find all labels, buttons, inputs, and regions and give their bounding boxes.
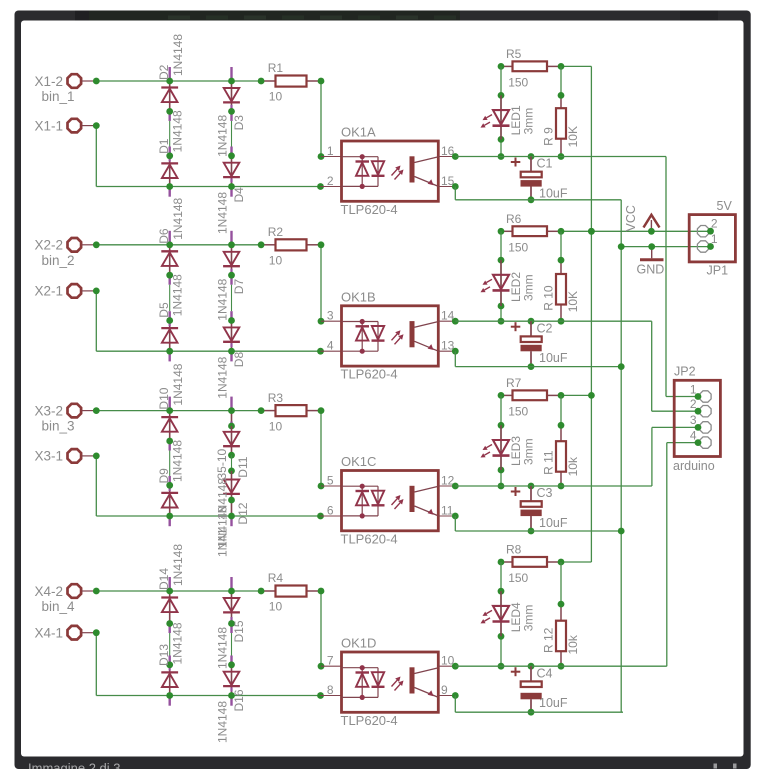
- svg-text:R8: R8: [506, 543, 522, 557]
- svg-text:R1: R1: [268, 61, 284, 75]
- svg-text:4: 4: [327, 339, 334, 353]
- svg-text:1N41: 1N41: [216, 528, 230, 557]
- svg-text:6: 6: [327, 503, 334, 517]
- svg-text:1: 1: [690, 382, 697, 396]
- svg-text:10uF: 10uF: [539, 187, 568, 201]
- svg-text:3: 3: [690, 413, 697, 427]
- svg-text:3mm: 3mm: [522, 108, 536, 135]
- svg-text:TLP620-4: TLP620-4: [341, 367, 398, 382]
- svg-text:11: 11: [441, 504, 454, 518]
- svg-text:1N4148: 1N4148: [216, 356, 230, 398]
- svg-text:5V: 5V: [717, 199, 733, 213]
- svg-text:bin_4: bin_4: [42, 599, 76, 614]
- svg-text:D6: D6: [157, 228, 171, 244]
- svg-text:10k: 10k: [566, 634, 580, 654]
- svg-text:R5: R5: [506, 47, 522, 61]
- svg-text:JP2: JP2: [674, 365, 696, 379]
- svg-text:R4: R4: [268, 571, 284, 585]
- svg-text:2: 2: [711, 217, 718, 231]
- svg-text:5: 5: [327, 473, 334, 487]
- svg-text:R 11: R 11: [542, 450, 556, 475]
- svg-text:1N4148: 1N4148: [171, 274, 185, 316]
- svg-text:X4-2: X4-2: [34, 584, 63, 599]
- svg-text:D11: D11: [236, 456, 250, 477]
- svg-text:150: 150: [508, 240, 528, 254]
- svg-text:C3: C3: [537, 486, 553, 500]
- svg-text:C2: C2: [537, 321, 553, 335]
- svg-text:R 9: R 9: [542, 127, 556, 146]
- svg-text:D7: D7: [232, 279, 246, 295]
- svg-text:TLP620-4: TLP620-4: [341, 713, 398, 728]
- svg-text:10: 10: [269, 419, 283, 433]
- svg-text:35-10: 35-10: [215, 448, 229, 479]
- svg-text:D5: D5: [157, 302, 171, 318]
- svg-text:1N4148: 1N4148: [171, 622, 185, 664]
- svg-text:X2-1: X2-1: [34, 284, 63, 299]
- svg-text:R6: R6: [506, 212, 522, 226]
- svg-text:1N4148: 1N4148: [216, 701, 230, 743]
- svg-text:8: 8: [327, 683, 334, 697]
- svg-text:10: 10: [269, 90, 283, 104]
- svg-text:D12: D12: [236, 502, 250, 524]
- svg-text:1: 1: [711, 232, 718, 246]
- svg-text:1N4148: 1N4148: [216, 115, 230, 157]
- svg-text:C1: C1: [537, 157, 553, 171]
- svg-text:10uF: 10uF: [539, 516, 568, 530]
- svg-text:D8: D8: [232, 352, 246, 368]
- svg-text:1N4148: 1N4148: [171, 34, 185, 76]
- svg-text:9: 9: [441, 683, 448, 697]
- svg-text:150: 150: [508, 404, 528, 418]
- svg-text:X4-1: X4-1: [34, 626, 63, 641]
- svg-text:1N4148: 1N4148: [216, 278, 230, 320]
- svg-text:1N4148: 1N4148: [171, 440, 185, 482]
- svg-text:OK1B: OK1B: [341, 289, 376, 304]
- svg-text:bin_3: bin_3: [42, 419, 75, 434]
- svg-text:OK1A: OK1A: [341, 125, 376, 140]
- svg-text:R7: R7: [506, 376, 522, 390]
- svg-text:10K: 10K: [566, 126, 580, 147]
- svg-text:X3-1: X3-1: [34, 449, 63, 464]
- svg-text:GND: GND: [637, 263, 665, 277]
- svg-text:TLP620-4: TLP620-4: [341, 531, 398, 546]
- svg-text:OK1D: OK1D: [341, 636, 376, 651]
- svg-text:R 10: R 10: [542, 285, 556, 311]
- svg-text:R 12: R 12: [542, 627, 556, 653]
- svg-text:1N4148: 1N4148: [216, 192, 230, 234]
- svg-text:JP1: JP1: [707, 264, 729, 278]
- svg-text:1N4148: 1N4148: [171, 197, 185, 239]
- svg-text:150: 150: [508, 571, 528, 585]
- svg-text:7: 7: [327, 654, 334, 668]
- svg-text:D14: D14: [157, 568, 171, 590]
- svg-text:D2: D2: [157, 64, 171, 80]
- svg-text:1N4148: 1N4148: [171, 363, 185, 405]
- svg-text:1N4148: 1N4148: [171, 110, 185, 152]
- svg-text:10: 10: [269, 254, 283, 268]
- svg-text:arduino: arduino: [673, 459, 715, 473]
- svg-text:1N4148: 1N4148: [216, 627, 230, 669]
- svg-text:3mm: 3mm: [522, 605, 536, 632]
- svg-text:3: 3: [327, 309, 334, 323]
- svg-text:D4: D4: [232, 187, 246, 203]
- svg-text:TLP620-4: TLP620-4: [341, 202, 398, 217]
- svg-text:2: 2: [690, 397, 697, 411]
- svg-text:4: 4: [690, 428, 697, 442]
- svg-text:X2-2: X2-2: [34, 238, 63, 253]
- svg-text:R3: R3: [268, 391, 284, 405]
- svg-text:X1-1: X1-1: [34, 118, 63, 133]
- svg-text:2: 2: [327, 174, 334, 188]
- svg-text:bin_1: bin_1: [42, 89, 75, 104]
- svg-text:bin_2: bin_2: [42, 253, 75, 268]
- svg-text:OK1C: OK1C: [341, 454, 376, 469]
- svg-text:D1: D1: [157, 138, 171, 154]
- svg-text:1: 1: [327, 144, 334, 158]
- svg-text:10: 10: [269, 600, 283, 614]
- svg-text:VCC: VCC: [624, 205, 638, 231]
- svg-text:3mm: 3mm: [522, 438, 536, 465]
- svg-text:C4: C4: [537, 666, 553, 680]
- svg-text:10K: 10K: [566, 291, 580, 312]
- svg-text:D3: D3: [232, 115, 246, 131]
- svg-text:10uF: 10uF: [539, 696, 568, 710]
- svg-text:X1-2: X1-2: [34, 74, 63, 89]
- svg-text:D9: D9: [157, 468, 171, 484]
- svg-text:1N4148: 1N4148: [171, 544, 185, 586]
- svg-text:10k: 10k: [566, 456, 580, 476]
- svg-text:R2: R2: [268, 225, 284, 239]
- svg-text:150: 150: [508, 75, 528, 89]
- svg-text:D13: D13: [157, 644, 171, 666]
- svg-text:D15: D15: [232, 620, 246, 642]
- svg-text:10uF: 10uF: [539, 351, 568, 365]
- svg-text:3mm: 3mm: [522, 274, 536, 301]
- svg-text:X3-2: X3-2: [34, 403, 63, 418]
- svg-text:D10: D10: [157, 387, 171, 409]
- svg-text:D16: D16: [232, 689, 246, 711]
